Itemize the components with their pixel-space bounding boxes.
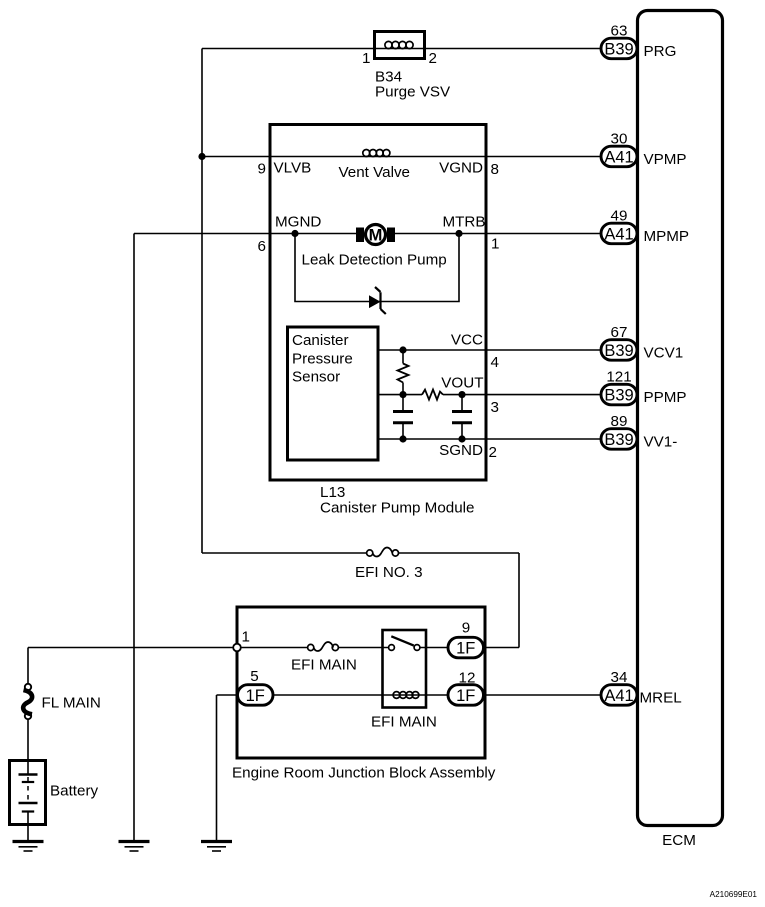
connector B39 pin63 PRG: [601, 23, 676, 61]
wire battery to ground: [27, 825, 29, 842]
ground (battery): [13, 842, 44, 852]
wire VCC row: [378, 349, 619, 351]
svg-text:Sensor: Sensor: [292, 369, 340, 386]
svg-text:A41: A41: [604, 149, 633, 167]
node SGND junction 1: [399, 435, 406, 442]
fuse EFI MAIN: [308, 642, 339, 651]
ground (junction block): [201, 842, 232, 852]
svg-text:B39: B39: [604, 387, 633, 405]
svg-text:49: 49: [611, 208, 628, 225]
purge VSV coil: [385, 41, 413, 48]
svg-text:VGND: VGND: [439, 160, 483, 177]
svg-text:MREL: MREL: [640, 690, 682, 707]
wire purge VSV row: [202, 48, 619, 50]
connector B39 pin121 PPMP: [601, 369, 687, 406]
resistor R2 horizontal: [422, 390, 443, 400]
junction dots: [198, 153, 465, 443]
wire junction row1 segments: [241, 647, 308, 649]
svg-text:67: 67: [611, 324, 628, 341]
relay switch contacts: [389, 645, 395, 651]
wire VPMP row: [202, 156, 619, 158]
svg-text:1F: 1F: [456, 687, 475, 705]
svg-text:1: 1: [362, 50, 370, 67]
svg-text:MTRB: MTRB: [442, 214, 485, 231]
svg-text:EFI NO. 3: EFI NO. 3: [355, 564, 423, 581]
ECM box: [638, 11, 723, 826]
svg-text:Canister Pump Module: Canister Pump Module: [320, 500, 474, 517]
svg-text:4: 4: [491, 354, 499, 371]
wire pin5 to ground: [216, 695, 218, 842]
svg-text:VPMP: VPMP: [644, 151, 687, 168]
capacitor C2: [452, 412, 472, 423]
connector 1F pin5: [238, 685, 274, 706]
node MTRB: [455, 230, 462, 237]
svg-text:PPMP: PPMP: [644, 389, 687, 406]
wire resistor stubs x403: [402, 350, 404, 364]
svg-text:6: 6: [258, 238, 266, 255]
svg-text:1: 1: [491, 236, 499, 253]
wire battery to pin1: [28, 647, 234, 649]
svg-text:Purge VSV: Purge VSV: [375, 84, 451, 101]
svg-text:VCV1: VCV1: [644, 345, 684, 362]
canister pressure sensor box: [288, 327, 379, 460]
capacitor C1: [393, 412, 413, 423]
svg-text:121: 121: [606, 369, 631, 386]
wire left vertical B+ bus: [201, 49, 203, 554]
wire FL MAIN to battery: [27, 719, 29, 760]
svg-text:2: 2: [489, 444, 497, 461]
svg-text:B39: B39: [604, 41, 633, 59]
wire EFI NO.3 row: [202, 552, 367, 554]
connector B39 pin89 VV1-: [601, 413, 677, 451]
svg-text:VV1-: VV1-: [644, 434, 678, 451]
node VOUT junction 2: [458, 391, 465, 398]
motor M1 leak detection pump: [356, 225, 395, 245]
svg-text:VLVB: VLVB: [274, 160, 312, 177]
svg-text:SGND: SGND: [439, 442, 483, 459]
svg-text:A41: A41: [604, 226, 633, 244]
connector 1F pin9: [448, 637, 484, 658]
canister pump module box: [270, 125, 486, 481]
svg-text:A41: A41: [604, 687, 633, 705]
svg-text:30: 30: [611, 131, 628, 148]
svg-text:FL MAIN: FL MAIN: [42, 695, 101, 712]
node VCC junction: [399, 346, 406, 353]
fuse EFI NO.3: [367, 548, 399, 557]
junction block box: [237, 607, 485, 758]
svg-text:Engine Room Junction Block Ass: Engine Room Junction Block Assembly: [232, 765, 496, 782]
node VOUT junction 1: [399, 391, 406, 398]
connector A41 pin30 VPMP: [601, 131, 687, 169]
connector A41 pin49 MPMP: [601, 208, 689, 246]
svg-text:VOUT: VOUT: [441, 375, 483, 392]
svg-text:ECM: ECM: [662, 832, 696, 849]
svg-text:5: 5: [250, 668, 258, 685]
connector B39 pin67 VCV1: [601, 324, 683, 362]
svg-text:B39: B39: [604, 342, 633, 360]
wire VOUT row right: [443, 394, 619, 396]
connector 1F pin12: [448, 685, 484, 706]
svg-text:Battery: Battery: [50, 783, 99, 800]
svg-text:63: 63: [611, 23, 628, 40]
node B+ / VPMP junction: [198, 153, 205, 160]
fusible link FL MAIN: [23, 684, 32, 719]
wire SGND row: [378, 438, 619, 440]
svg-text:1: 1: [242, 629, 250, 646]
svg-text:1F: 1F: [246, 687, 265, 705]
wire VOUT row left: [378, 394, 422, 396]
wire MGND to ground vertical: [133, 234, 135, 842]
svg-text:Leak Detection Pump: Leak Detection Pump: [302, 252, 447, 269]
svg-text:1F: 1F: [456, 640, 475, 658]
svg-text:3: 3: [491, 399, 499, 416]
connector A41 pin34 MREL: [601, 669, 682, 707]
svg-text:34: 34: [611, 669, 628, 686]
svg-text:8: 8: [491, 161, 499, 178]
svg-text:Pressure: Pressure: [292, 351, 353, 368]
zener diode D1: [369, 287, 386, 314]
node pin1 open circle: [233, 644, 241, 652]
wire MPMP row: [134, 233, 619, 235]
svg-text:2: 2: [429, 50, 437, 67]
svg-text:89: 89: [611, 413, 628, 430]
wire capacitor C1 stubs: [402, 395, 404, 412]
wire capacitor C2 stubs: [461, 395, 463, 412]
svg-text:A210699E01: A210699E01: [710, 890, 758, 899]
ground (MGND): [119, 842, 150, 852]
svg-text:Canister: Canister: [292, 332, 349, 349]
svg-text:B39: B39: [604, 431, 633, 449]
relay box EFI MAIN: [383, 630, 427, 708]
svg-text:VCC: VCC: [451, 332, 483, 349]
svg-text:L13: L13: [320, 484, 345, 501]
svg-text:MPMP: MPMP: [644, 228, 690, 245]
relay coil: [393, 692, 419, 699]
svg-text:Vent Valve: Vent Valve: [339, 164, 411, 181]
svg-text:9: 9: [462, 620, 470, 637]
svg-text:9: 9: [258, 161, 266, 178]
relay switch blade: [391, 636, 414, 645]
vent valve coil: [363, 150, 390, 157]
purge VSV box B34: [375, 32, 425, 59]
svg-text:M: M: [369, 227, 383, 245]
svg-text:EFI MAIN: EFI MAIN: [291, 657, 357, 674]
svg-text:MGND: MGND: [275, 214, 321, 231]
battery: [10, 761, 46, 825]
svg-text:EFI MAIN: EFI MAIN: [371, 714, 437, 731]
svg-text:PRG: PRG: [644, 43, 677, 60]
node SGND junction 2: [458, 435, 465, 442]
node MGND: [291, 230, 298, 237]
resistor R1 vertical: [398, 364, 409, 383]
wire EFI NO.3 down to junction block: [518, 553, 520, 648]
wire junction row2 / MREL: [217, 694, 238, 696]
wire diode loop: [295, 234, 459, 302]
